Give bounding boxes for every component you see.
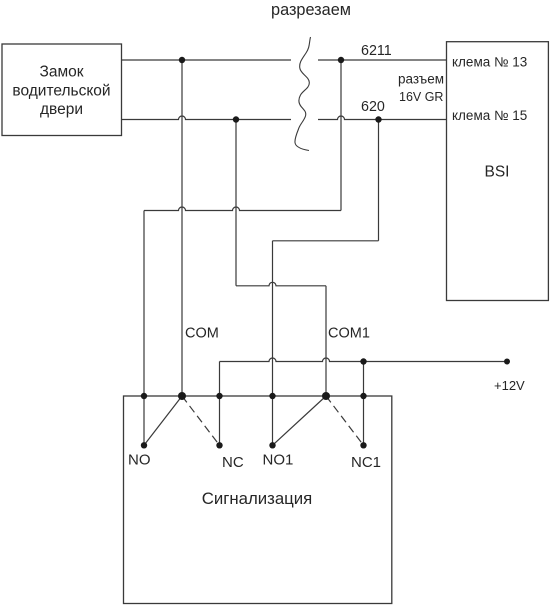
net label: NC	[222, 454, 244, 471]
svg-text:NO: NO	[128, 452, 151, 469]
net label: NO1	[263, 452, 294, 469]
wire: horizontal y=210 from x=144 to x=341, hops at x=182 and x=236	[144, 207, 341, 210]
svg-text:двери: двери	[40, 101, 83, 118]
svg-text:+12V: +12V	[494, 378, 525, 393]
junction: +12V line at x=364	[360, 358, 366, 364]
relay contact: COM to NO (solid)	[144, 396, 182, 445]
svg-text:NO1: NO1	[263, 452, 294, 469]
svg-text:разрезаем: разрезаем	[271, 1, 351, 19]
wire: horizontal y=284 from x=236 to x=326, hop at x=273	[236, 282, 326, 286]
terminal: COM on alarm box edge	[178, 392, 186, 400]
wire: vertical x=219.5 from +12V line down to NC contact	[219, 362, 221, 446]
wire: vertical x=182 from 6211-wire junction down to COM	[181, 60, 183, 396]
svg-text:COM: COM	[185, 326, 219, 342]
label: разрезаем (cut here)	[271, 1, 351, 19]
junction: 620 wire at x=378	[375, 116, 381, 122]
wire: vertical x=326 from y=284 down to COM1	[325, 286, 327, 396]
contact dot: NO	[141, 442, 147, 448]
junction: 6211 wire at x=341	[338, 57, 344, 63]
svg-text:620: 620	[361, 99, 385, 115]
relay contact: COM1 to NO1 (solid)	[273, 396, 327, 445]
wire: vertical x=236 from 620-wire junction down to y=284	[235, 120, 237, 286]
wire: vertical x=364 from +12V junction down to NC1 contact	[363, 362, 365, 446]
terminal: alarm box edge x=273	[269, 393, 275, 399]
terminal: +12V end dot	[504, 359, 510, 365]
svg-text:клема № 15: клема № 15	[452, 108, 527, 123]
svg-text:разъем: разъем	[398, 72, 444, 87]
terminal: alarm box edge x=219.5	[216, 393, 222, 399]
svg-text:COM1: COM1	[328, 326, 370, 342]
net label: 6211	[361, 43, 392, 59]
svg-text:NC: NC	[222, 454, 244, 471]
svg-text:NC1: NC1	[351, 454, 381, 471]
wire: lock bottom output to BSI клема 15 (net 620), cut gap, hops at x=182 and x=341	[122, 116, 447, 119]
net label: 620	[361, 99, 385, 115]
svg-text:клема № 13: клема № 13	[452, 55, 527, 70]
wire: vertical x=144 from y=210 down to NO contact	[143, 211, 145, 446]
block: alarm (Сигнализация)	[124, 396, 392, 604]
terminal: COM1 on alarm box edge	[322, 392, 330, 400]
svg-text:Замок: Замок	[39, 64, 83, 81]
net label: NC1	[351, 454, 381, 471]
contact dot: NO1	[269, 442, 275, 448]
junction: 620 wire at x=236	[233, 116, 239, 122]
svg-text:BSI: BSI	[485, 164, 510, 181]
terminal: alarm box edge x=364	[360, 393, 366, 399]
net label: NO	[128, 452, 151, 469]
block: BSI	[447, 42, 549, 301]
relay contact: COM1 to NC1 (dashed)	[326, 396, 364, 445]
wire: vertical x=273 from y=240 down to NO1 contact	[272, 241, 274, 445]
contact dot: NC1	[360, 442, 366, 448]
net label: COM1	[328, 326, 370, 342]
svg-text:Сигнализация: Сигнализация	[202, 489, 312, 508]
net label: +12V	[494, 378, 525, 393]
pin: клема № 15	[452, 108, 527, 123]
pin: клема № 13	[452, 55, 527, 70]
contact dot: NC	[216, 442, 222, 448]
wire: lock top output to BSI клема 13 (net 6211), cut gap	[122, 59, 447, 61]
wire: horizontal y=240 from x=273 to x=378	[273, 240, 379, 242]
block: driver door lock (Замок водительской двери)	[2, 44, 122, 136]
junction: 6211 wire at x=182	[179, 57, 185, 63]
wire: vertical x=378 from 620 junction down to y=240	[378, 120, 380, 241]
svg-text:6211: 6211	[361, 43, 392, 59]
wire: vertical from 6211 junction down (x=341)	[340, 60, 342, 211]
wire: +12V horizontal y=361 from x=219.5 to x=507, hops at x=273 and x=326, junction at x=364	[220, 358, 508, 361]
relay contact: COM to NC (dashed)	[182, 396, 220, 445]
svg-text:водительской: водительской	[12, 83, 110, 100]
cut mark squiggle (разрезаем)	[295, 37, 311, 151]
svg-text:16V GR: 16V GR	[399, 90, 443, 104]
net label: COM	[185, 326, 219, 342]
label: разъем 16V GR	[398, 72, 444, 105]
terminal: alarm box edge x=144	[141, 393, 147, 399]
